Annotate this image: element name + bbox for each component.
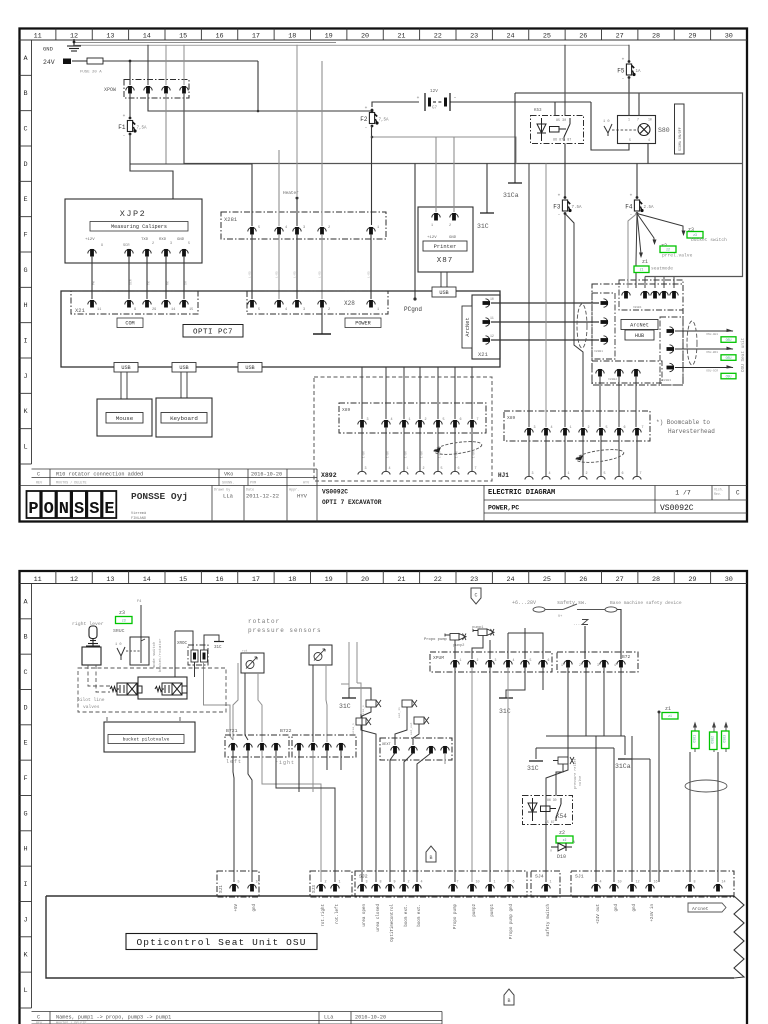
svg-text:S: S [89,500,99,519]
svg-text:14: 14 [143,576,151,584]
pin XPUM-6 [539,660,547,668]
wire XJP2 pin4 to X21 [165,256,167,299]
connector SJ1 [571,871,734,897]
pin B722-2 [309,743,317,751]
svg-text:10: 10 [490,297,494,301]
svg-text:pump2: pump2 [473,904,477,917]
wire XROC to 31C ground [204,635,219,650]
wire F3 down to X89 right [564,214,566,428]
pin XPUM-2 [468,660,476,668]
wire K53 switch down to F3 [564,144,566,199]
pin B721-1 [229,743,237,751]
svg-text:8: 8 [380,881,382,885]
svg-text:B721: B721 [226,728,238,734]
svg-text:safety sw.: safety sw. [557,600,587,606]
svg-text:HJ1: HJ1 [498,472,509,479]
device XJP2 Measuring Calipers [65,199,202,263]
wire X89-4 up [385,367,387,419]
svg-text:S: S [74,500,84,519]
svg-text:14: 14 [722,881,726,885]
connector X21 ArcNet [472,295,500,359]
svg-text:1: 1 [494,881,496,885]
svg-text:REV: REV [36,482,43,486]
printer USB port [441,272,447,287]
urea_in sensor [356,718,371,725]
wire XPOW pin1 down to F1 [129,93,131,118]
svg-text:OptiTimeControl: OptiTimeControl [390,904,395,942]
svg-text:11: 11 [97,308,101,312]
wire F1 to XJP2 supply [130,134,173,199]
pin X21-15 [180,300,188,308]
pin X21-29 [143,300,151,308]
fuse F2 7,5A [360,106,389,131]
wire X89-6 down to cable end 6 [454,427,456,471]
svg-text:ArcNet: ArcNet [630,322,649,328]
svg-text:SCR: SCR [123,244,130,248]
pin SJ1-14 [714,884,722,892]
svg-text:1-RD: 1-RD [319,271,322,278]
pin X87-2 [450,213,458,221]
pin X89-7 (HJ1) [633,428,641,436]
svg-text:*) Boomcable to: *) Boomcable to [656,419,710,426]
wire safety switch [533,607,545,612]
wire X89-4 down to cable end [545,435,547,476]
fuse F1 7,5A [118,114,147,139]
svg-text:gnd: gnd [632,904,637,912]
wire X89-2 down to cable end [582,435,584,476]
svg-text:valve: valve [578,776,583,786]
wire F2 down to X281 pin1 and gray bus [371,126,373,225]
svg-text:USB: USB [179,365,188,371]
svg-text:OSU: OSU [726,338,732,342]
svg-text:3: 3 [365,467,367,471]
wire XROC gray to sensors [194,662,196,677]
svg-text:7: 7 [642,426,644,430]
device bucket pilotvalve [106,717,108,722]
svg-text:SJ1: SJ1 [219,885,224,893]
svg-text:6: 6 [458,467,460,471]
wire arcnet 11 [491,321,599,323]
stubs into X89B4 [644,277,646,289]
svg-text:OSU1: OSU1 [692,735,696,743]
pin X21-12 arcnet [483,336,491,344]
pin SJ2-2 boom ext. [400,884,408,892]
svg-text:Measuring Calipers: Measuring Calipers [111,224,167,230]
svg-text:3: 3 [366,881,368,885]
fuse F4 2.5A [636,164,638,199]
svg-text:J: J [23,916,27,924]
device Printer X87 [418,207,473,272]
wire battery to S80 lamp [591,102,629,150]
wire battery bus [372,102,419,107]
svg-text:C: C [23,669,27,677]
svg-text:6: 6 [460,418,462,422]
svg-text:ArcNet: ArcNet [465,317,471,336]
pin SJ4-1 safety switch [542,884,550,892]
wire heater to X281 pin3 [296,197,299,200]
svg-text:Vieremä: Vieremä [131,511,147,516]
svg-text:30: 30 [725,33,733,41]
seat pressure sensor 2 [414,717,429,724]
connector SJ1 [217,871,259,897]
svg-text:14: 14 [171,308,175,312]
pin XEXT-2 [409,746,417,754]
svg-text:+12V: +12V [427,236,437,240]
svg-text:11: 11 [34,33,42,41]
pin SJ1-8 [686,884,694,892]
wire XPOW pin2 to battery bus [148,93,372,111]
svg-text:31C: 31C [339,703,351,710]
wire X89-2 down to cable end 2 [419,427,421,471]
svg-text:VS0092C: VS0092C [660,504,694,513]
wire X89-1 up [403,367,405,419]
svg-text:28: 28 [652,33,660,41]
svg-text:XPUM: XPUM [433,655,444,661]
valve propo pump2 [445,634,466,641]
svg-text:2016-10-20: 2016-10-20 [251,472,282,478]
pin XJP2-4 [162,249,170,257]
flag C pennant [471,588,481,604]
connector X89B1 [592,293,615,359]
svg-text:+: + [622,58,625,63]
ground 31C below XPUM [506,667,525,698]
svg-text:E: E [23,196,27,204]
svg-text:3: 3 [495,658,497,662]
pin XEXT-1 [391,746,399,754]
svg-text:3: 3 [597,663,599,667]
cable marker ellipse [577,304,587,348]
wire X89-2 up [419,367,421,419]
svg-text:X21: X21 [75,307,86,314]
svg-text:rot.left: rot.left [335,904,340,925]
svg-text:9: 9 [101,244,103,248]
svg-text:OSU2: OSU2 [710,736,714,744]
ground 31C mid [529,760,543,762]
pin SJ2-1 pump1 [486,884,494,892]
pin X21-10 arcnet [483,299,491,307]
svg-text:Printer: Printer [434,244,457,250]
svg-text:18: 18 [288,576,296,584]
svg-text:4: 4 [648,138,650,142]
svg-text:SJ4: SJ4 [535,874,544,880]
pin SJ1-10 gnd [610,884,618,892]
wire X89-6 up [454,367,456,419]
svg-text:24: 24 [506,576,514,584]
svg-text:10: 10 [648,118,652,122]
svg-text:F: F [23,232,27,240]
wire printer pin1 up [435,137,437,212]
svg-text:23: 23 [470,576,478,584]
pin B72-1 [564,660,572,668]
svg-text:S80: S80 [658,127,670,134]
svg-text:30: 30 [725,576,733,584]
pressure sensor B721 [241,653,264,673]
svg-text:seatmode: seatmode [651,266,673,272]
svg-text:-: - [123,134,126,139]
USB port 1 [114,363,138,373]
svg-text:2: 2 [328,308,330,312]
pin B72-3 [600,660,608,668]
svg-text:C: C [23,126,27,134]
svg-text:C: C [736,490,740,497]
svg-text:Mouse: Mouse [116,415,134,422]
svg-text:1-RD: 1-RD [249,271,252,278]
wires B722 down [298,750,300,792]
svg-text:31C: 31C [477,223,489,230]
svg-text:L: L [23,987,27,995]
svg-text:1-WH: 1-WH [456,451,459,458]
svg-text:7: 7 [477,418,479,422]
svg-text:PONSSE Oyj: PONSSE Oyj [131,491,188,502]
svg-text:z1: z1 [665,706,671,712]
pin SJ1-16 +24V in [646,884,654,892]
pin XJP2-2 [125,249,133,257]
wire X281-3 to X28-3 [296,234,298,299]
svg-text:23: 23 [470,33,478,41]
pin XEXT-3 [427,746,435,754]
pin X21-9 [125,300,133,308]
svg-text:pump1: pump1 [491,904,495,917]
svg-text:85 30: 85 30 [556,119,566,123]
wire arcnet 12 [491,339,599,341]
svg-text:31Ca: 31Ca [503,192,519,199]
diode D10 [545,825,547,882]
svg-text:10: 10 [476,881,480,885]
wire X281-2 to X28-2 [321,234,323,299]
svg-text:urea_i: urea_i [351,723,355,734]
svg-text:USB: USB [439,290,448,296]
svg-text:OPTI PC7: OPTI PC7 [193,328,233,336]
svg-text:B722: B722 [280,728,292,734]
svg-text:1: 1 [377,226,379,230]
svg-text:pressure sensors: pressure sensors [248,627,322,634]
svg-text:1-WH: 1-WH [387,451,390,458]
svg-text:P: P [28,500,38,519]
pin SJ2-6 Propo pump gnd [505,884,513,892]
svg-text:15: 15 [179,576,187,584]
pin XPOW-3 [162,86,170,94]
svg-text:F: F [23,775,27,783]
svg-text:13: 13 [106,576,114,584]
svg-text:1: 1 [407,467,409,471]
svg-text:R10 rotator connection added: R10 rotator connection added [56,472,143,478]
svg-text:19: 19 [325,576,333,584]
svg-text:6: 6 [624,426,626,430]
gray feeds urea [366,688,371,700]
pin B721-3 [258,743,266,751]
pin SJ1-5 +5V [230,884,238,892]
svg-text:31Ca: 31Ca [615,763,631,770]
svg-text:18: 18 [288,33,296,41]
pin B722-1 [295,743,303,751]
urea_out sensor [366,700,381,707]
svg-text:+: + [417,96,420,101]
svg-text:1-RD: 1-RD [276,271,279,278]
svg-text:14: 14 [143,33,151,41]
svg-text:2: 2 [477,658,479,662]
svg-text:1: 1 [550,881,552,885]
battery G7 12V [425,93,450,111]
svg-text:1-WH: 1-WH [473,451,476,458]
wire to OSU OSU-BN1 [675,348,733,350]
wire XPOW pin4 down then main bus [184,93,743,164]
svg-text:5: 5 [530,658,532,662]
svg-text:F5: F5 [617,68,625,75]
svg-text:GND: GND [177,238,185,242]
pin X281-1 [367,227,375,235]
wire X89-5 down to cable end [600,435,602,476]
svg-text:VS0092C: VS0092C [322,489,348,496]
svg-text:N: N [59,500,69,519]
svg-text:26: 26 [579,576,587,584]
svg-text:+6...28V: +6...28V [512,600,536,606]
svg-text:16: 16 [215,576,223,584]
pin X89-2 (X892) [416,420,424,428]
label Opticontrol Seat Unit OSU [126,934,317,950]
svg-text:left: left [226,759,242,765]
svg-text:5: 5 [188,242,190,246]
wire S80 bottom down [647,144,649,164]
label POWER [345,318,381,328]
svg-text:L: L [23,444,27,452]
wire safety down to B72 [584,626,586,659]
svg-text:Vish.: Vish. [714,488,724,492]
svg-text:16: 16 [654,881,658,885]
joystick right lever [82,626,101,665]
svg-text:4: 4 [285,308,287,312]
svg-text:4: 4 [391,418,393,422]
svg-text:bucket switch: bucket switch [691,237,727,243]
pin X89-7 (X892) [468,420,476,428]
svg-text:B: B [23,634,27,642]
svg-text:C: C [37,1015,40,1021]
pressure sensor B722 [309,645,332,665]
wire XPOW pin1 up to 24V [129,61,131,85]
page 2 row ruler band [20,584,32,1009]
svg-text:OSU-SCR: OSU-SCR [706,370,718,373]
pin XEXT-4 [441,746,449,754]
pin X281-3 [293,227,301,235]
svg-text:5: 5 [604,472,606,476]
label ArcNet HUB [621,320,658,330]
pin X89-1 (X892) [400,420,408,428]
svg-text:D10: D10 [557,854,566,860]
pin SJ2-9 OptiTimeControl [386,884,394,892]
wires XPUM down to SJ2 [454,667,456,882]
svg-text:POWER: POWER [355,321,371,327]
svg-text:XEXT: XEXT [382,743,391,747]
pin SJ1-4 +24V out [592,884,600,892]
svg-text:X89B4: X89B4 [633,306,642,309]
svg-text:9: 9 [134,308,136,312]
connector X89 right (HJ1) [504,411,650,441]
valve pilot 1 [110,683,142,695]
connector X28 POWER [247,291,388,314]
ground symbol chassis GND [67,39,81,51]
ground 31C sensors [342,697,356,699]
svg-text:safety switch: safety switch [546,904,551,937]
dashed links joystick to valves [88,665,110,686]
svg-text:1 0: 1 0 [115,643,121,647]
svg-text:A: A [23,598,28,606]
svg-text:22: 22 [434,33,442,41]
svg-text:POWER,PC: POWER,PC [488,505,519,512]
svg-text:Arcnet: Arcnet [692,906,709,912]
svg-text:5: 5 [441,467,443,471]
svg-text:+24V out: +24V out [597,904,601,925]
page 2 outer border frame [20,571,748,1024]
pin X21-14 [162,300,170,308]
svg-text:2: 2 [425,418,427,422]
wires B721 to SJ1 left [233,750,234,882]
svg-text:TX: TX [147,281,151,285]
svg-text:5: 5 [258,226,260,230]
svg-text:15: 15 [179,33,187,41]
pin XPOW-2 [144,86,152,94]
pin SJ2-7 Propo pump [449,884,457,892]
svg-text:F2: F2 [360,116,368,123]
label OPTI PC7 [183,325,243,338]
wires sensors to XEXT [395,707,407,745]
svg-text:valves: valves [83,704,100,710]
svg-text:SIGMA ON/OFF: SIGMA ON/OFF [678,127,682,151]
USB cable to keyboard [181,372,187,398]
svg-text:z3: z3 [119,610,125,616]
svg-text:D: D [23,704,27,712]
svg-text:29: 29 [688,576,696,584]
svg-text:2: 2 [588,426,590,430]
wire XJP2 pin3 to X21 [146,256,148,299]
svg-text:z2: z2 [666,248,670,252]
svg-text:GND: GND [43,46,54,53]
svg-text:1-WH: 1-WH [421,451,424,458]
svg-text:24: 24 [506,33,514,41]
svg-text:2: 2 [408,881,410,885]
svg-text:X892: X892 [321,472,337,479]
svg-text:SJ1: SJ1 [575,874,584,880]
indicator light S80 box [618,116,656,144]
svg-text:GND: GND [449,236,457,240]
svg-text:z1: z1 [640,268,644,272]
pin X89-4 (X892) [382,420,390,428]
svg-text:F4: F4 [625,204,633,211]
svg-text:3: 3 [534,426,536,430]
page 1 title block grid [20,469,748,522]
svg-text:K54: K54 [556,813,567,820]
svg-text:2: 2 [325,881,327,885]
wires mid to SJ1 [595,736,597,882]
connector X281 [221,212,386,239]
svg-text:COM: COM [125,321,134,327]
label COM [117,318,143,328]
svg-text:pressure relief: pressure relief [573,758,578,789]
page 1 column ruler band [20,29,748,41]
svg-text:10: 10 [618,881,622,885]
pin X89-6 (X892) [451,420,459,428]
svg-text:z2: z2 [563,838,567,842]
svg-text:4: 4 [549,472,551,476]
vertical device label box [675,104,685,154]
svg-text:MUUTOS / DELETE: MUUTOS / DELETE [56,481,87,486]
pin X281-5 [248,227,256,235]
svg-text:bucket pilotvalve: bucket pilotvalve [123,737,170,743]
pin XJP2-1 [88,249,96,257]
svg-text:4: 4 [285,226,287,230]
svg-text:X89B3: X89B3 [662,379,671,382]
svg-text:eat_out: eat_out [410,722,413,735]
wire XPOW pin3 up [165,45,167,85]
svg-text:OPTI 7 EXCAVATOR: OPTI 7 EXCAVATOR [322,499,382,506]
